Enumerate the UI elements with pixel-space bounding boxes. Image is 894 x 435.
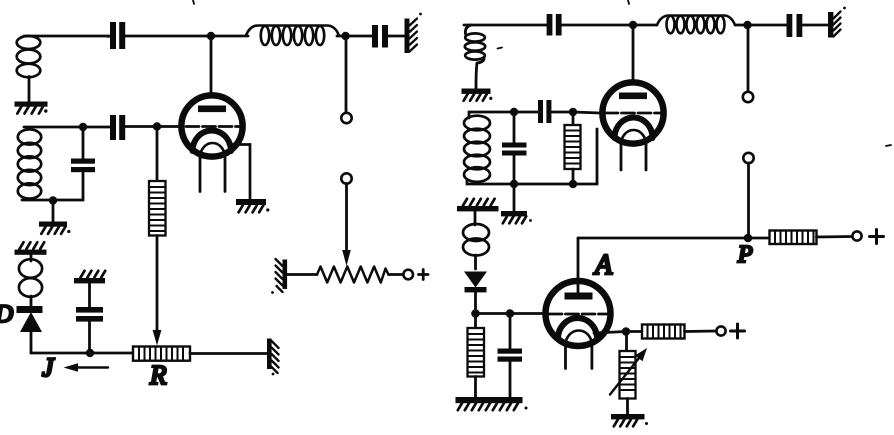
- tube V1 cathode: [193, 131, 232, 152]
- wire: bottom bus to R: [31, 352, 133, 355]
- ground G8 (potentiometer left, vertical): [271, 259, 287, 294]
- ground G13 (wide bottom): [456, 397, 528, 410]
- node: dot at resistor top: [569, 108, 577, 116]
- label + (cathode bias): [731, 324, 745, 338]
- wire: bottom bus right tank: [467, 183, 597, 186]
- wire: cathode out to dot: [594, 332, 626, 334]
- wire: diode to junction: [474, 292, 477, 314]
- inductor L8 (detector coil right): [463, 224, 489, 256]
- terminal T6: [852, 231, 861, 240]
- capacitor C8 (series): [538, 100, 551, 123]
- tube V2 heater legs: [620, 145, 623, 171]
- wire: cap C1 to plate junction: [123, 35, 249, 38]
- resistor R5 (cathode, horizontal): [642, 325, 685, 339]
- wire: to ground G2: [52, 200, 55, 222]
- wire: R to ground G6: [190, 352, 267, 355]
- wire: T5 to P junction: [747, 163, 750, 238]
- wire: tank bottom bus: [22, 199, 83, 202]
- wire: L5 leads: [465, 25, 471, 34]
- node P junction dot: [744, 234, 753, 243]
- node: dot at tank: [510, 108, 518, 116]
- wire: grid bus right: [469, 111, 538, 114]
- tube V1 heater legs: [199, 158, 202, 192]
- wire: diode to bottom bus: [30, 332, 33, 353]
- tube V3 heater: [566, 331, 592, 346]
- terminal T4: [743, 92, 753, 102]
- node: terminal junction dot: [743, 21, 751, 29]
- resistor R4 (plate, horizontal): [770, 231, 817, 245]
- inductor L7 (horizontal choke right): [657, 16, 735, 34]
- wire: cathode to ground: [228, 145, 250, 200]
- wire: plate lead V2: [632, 25, 635, 93]
- resistor R (horizontal): [133, 347, 190, 361]
- capacitor C3: [372, 25, 388, 48]
- tube V3 plate: [565, 293, 593, 300]
- arrow across R6: [610, 348, 647, 395]
- tube V3 cathode: [558, 318, 597, 339]
- wire: to R5: [626, 330, 642, 333]
- wire: L6 top lead: [468, 112, 471, 118]
- wire: G8 to potentiometer: [287, 273, 317, 276]
- wire: to tube V3 grid: [476, 312, 546, 315]
- wire: junction to terminal T1: [345, 36, 348, 113]
- ground G11: [501, 211, 532, 223]
- tube V3 envelope: [546, 281, 611, 346]
- terminal T5: [743, 153, 753, 163]
- wire: C2 to grid junction: [124, 125, 157, 128]
- resistor R2 (grid resistor, vertical): [572, 112, 575, 125]
- node: junction dot: [86, 349, 94, 357]
- wire: top bus left circuit: [24, 35, 112, 38]
- capacitor C1: [110, 22, 125, 49]
- resistor R3 (detector load, vertical): [474, 314, 477, 329]
- inductor L4 (detector coil): [19, 259, 42, 297]
- terminal T7: [716, 326, 725, 335]
- wire: L4 to diode: [30, 296, 33, 306]
- wire: T4 drop: [747, 25, 750, 92]
- tube V1 plate: [198, 106, 226, 113]
- tube V1 heater: [200, 143, 225, 158]
- wire: T2 arrow to potentiometer wiper: [345, 184, 348, 253]
- node: grid junction dot: [153, 122, 161, 130]
- wire: grid leak down to arrow on R: [156, 236, 159, 333]
- wire: C5 to bottom bus: [88, 322, 91, 354]
- wire: plate lead V3: [577, 238, 580, 294]
- wire: plate lead tube V1: [210, 36, 213, 106]
- wire: R5 to terminal: [685, 330, 717, 333]
- wire: G12 to L8: [474, 212, 477, 226]
- inductor L3 (horizontal RF choke): [246, 26, 339, 46]
- wire: potentiometer to terminal: [389, 273, 404, 276]
- capacitor C7: [787, 14, 803, 37]
- diode D2 (right): [464, 272, 487, 293]
- tube V2 heater: [621, 130, 646, 145]
- ground G5 (cathode V1): [236, 199, 269, 212]
- svg-text:J: J: [42, 353, 55, 382]
- tube V1 envelope: [181, 95, 242, 156]
- terminal T1: [341, 113, 351, 123]
- tube V3 heater legs: [564, 345, 567, 369]
- diode D (left): [17, 306, 43, 332]
- wire: tank ground drop: [513, 184, 516, 212]
- ground G9 (top right, vertical): [828, 7, 846, 38]
- svg-text:D: D: [0, 301, 13, 328]
- capacitor C2 (series grid cap): [110, 115, 125, 140]
- label + (left output): [419, 270, 429, 280]
- ground G2: [39, 222, 70, 234]
- wire: R6 to ground: [626, 399, 629, 415]
- svg-text:R: R: [149, 360, 167, 390]
- variable resistor R6: [620, 351, 636, 399]
- inductor L2 (mid-left coil): [18, 129, 41, 198]
- inductor L1 (top-left coil): [17, 36, 41, 77]
- capacitor C6: [547, 14, 562, 36]
- ground G12 (above detector coil right): [457, 199, 499, 212]
- tube V2 envelope: [602, 82, 663, 143]
- wire: top bus right circuit: [464, 24, 548, 27]
- wire: cathode riser V2: [596, 129, 599, 184]
- wire: coil L2 out to cap C3: [337, 35, 373, 38]
- wire: G4 to C5: [88, 284, 91, 308]
- node: anode junction dot: [207, 32, 215, 40]
- ground G7 (top right, vertical): [405, 13, 422, 53]
- ground G14: [611, 414, 648, 426]
- ground G3 (above detector coil): [15, 242, 47, 255]
- ground G10 (below L5): [462, 89, 493, 101]
- wire: L1 bottom to ground: [28, 77, 31, 103]
- terminal T3: [403, 270, 413, 280]
- svg-text:P: P: [737, 242, 753, 268]
- capacitor C9 (parallel): [513, 112, 516, 143]
- wire: cap C3 to ground: [387, 35, 405, 38]
- tube V3 grid (dashed): [549, 313, 610, 316]
- node: tank ground dot: [49, 196, 57, 204]
- potentiometer P1 (zigzag): [317, 267, 389, 283]
- tube V2 cathode: [615, 117, 653, 138]
- wire: L8 to diode: [474, 255, 477, 269]
- tube V2 plate: [619, 93, 647, 100]
- wire: R4 to terminal: [817, 235, 853, 238]
- wire: L6 bottom lead: [466, 180, 469, 184]
- inductor L5 (top-right coil): [465, 33, 485, 59]
- wire: grid bus mid left: [24, 126, 110, 129]
- wire: plate line to P: [578, 237, 769, 240]
- wire: dot to variable resistor: [625, 332, 628, 352]
- capacitor C5: [76, 307, 103, 322]
- capacitor C10: [509, 314, 512, 349]
- node: junction dot at C2/C4: [79, 123, 87, 131]
- ground G4 (above C5): [74, 271, 105, 284]
- node: cathode junction dot: [622, 327, 631, 336]
- node: plate junction dot V2: [629, 21, 637, 29]
- speck marks from scan: [108, 0, 891, 146]
- label + (plate supply): [870, 230, 884, 244]
- ground G6 (right of R, vertical): [267, 339, 279, 376]
- node: cap junction dot: [506, 309, 515, 318]
- capacitor C4 (parallel tank cap): [82, 127, 85, 158]
- node: detector junction dot: [471, 309, 480, 318]
- node: output junction dot: [341, 32, 349, 40]
- wire: G3 to L4: [30, 255, 33, 262]
- tube V2 grid (dashed): [605, 112, 665, 115]
- terminal T2: [341, 173, 351, 183]
- resistor R1 (grid leak, vertical): [156, 127, 159, 182]
- ground G1 (below L1): [15, 102, 48, 114]
- node: dots on bottom bus: [510, 180, 518, 188]
- tube V1 grid (dashed): [157, 125, 181, 128]
- svg-text:A: A: [593, 250, 613, 281]
- inductor L6 (mid-right coil): [464, 116, 490, 182]
